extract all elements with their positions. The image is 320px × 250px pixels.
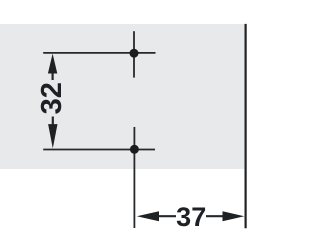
svg-text:37: 37 [176, 202, 206, 232]
hole H2 (bottom drilling) [130, 145, 139, 154]
panel (cabinet side, grey) [0, 24, 247, 169]
arrowhead up (32 dim) [48, 54, 57, 74]
svg-text:32: 32 [36, 82, 68, 114]
dimension line 32 lower stub [52, 117, 54, 126]
panel front edge line [245, 24, 247, 228]
extension line through hole H1 (top), 32-dim upper [43, 52, 155, 54]
arrowhead right (37 dim) [223, 211, 245, 221]
arrowhead down (32 dim) [48, 124, 57, 148]
dimension line 32 upper stub [51, 72, 53, 80]
dimension line 37 right stub [206, 215, 224, 217]
dimension line 37 left stub [158, 215, 176, 217]
extension line through hole H2 (bottom), 32-dim lower [43, 149, 155, 151]
arrowhead left (37 dim) [137, 211, 159, 221]
crosshair vertical of hole H2 + extension down to 37-dim [133, 127, 135, 228]
crosshair vertical of hole H1 [133, 31, 135, 77]
hole H1 (top drilling) [130, 49, 139, 58]
